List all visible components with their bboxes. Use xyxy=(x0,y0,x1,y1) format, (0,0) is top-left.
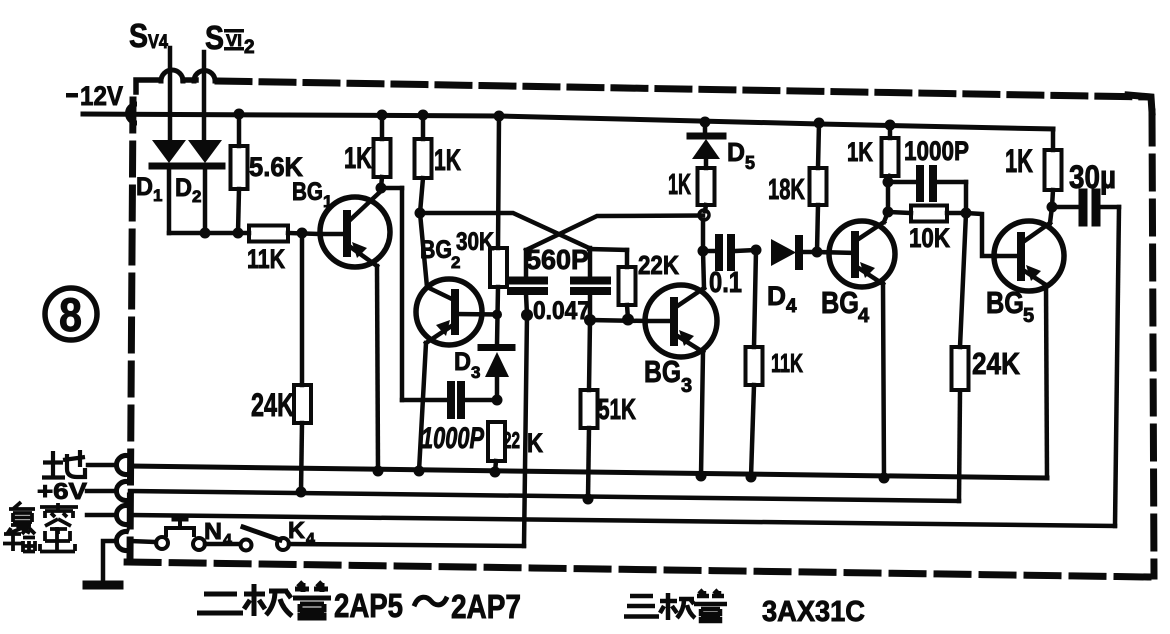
wire BG4 collector riser xyxy=(884,212,888,222)
label sanjiguan (transistor) hanzi xyxy=(624,590,727,621)
svg-text:2: 2 xyxy=(244,37,255,58)
svg-text:D: D xyxy=(136,173,153,201)
wire ground bus right riser to BG5 emitter xyxy=(1046,285,1047,478)
svg-text:D: D xyxy=(175,174,192,202)
wire BG1 base line xyxy=(169,231,249,236)
svg-text:D: D xyxy=(454,348,471,376)
node D3-1000P-22K xyxy=(492,395,503,406)
transistor BG1 xyxy=(320,191,390,267)
svg-text:1K: 1K xyxy=(1005,143,1033,179)
diode D2 xyxy=(188,140,222,233)
dashed enclosure border top xyxy=(218,81,1148,97)
svg-text:0.1: 0.1 xyxy=(709,267,742,299)
node 24K-+6V xyxy=(296,487,307,498)
wire stub di label xyxy=(88,463,114,468)
label fuling (reset) hanzi xyxy=(9,502,78,534)
terminal di (ground) xyxy=(116,456,129,475)
wire 11K to BG1 base xyxy=(288,233,321,234)
connector dome for Sv4 on border xyxy=(161,70,183,81)
svg-text:V4: V4 xyxy=(148,32,168,53)
wire +6V bus xyxy=(130,491,959,501)
wire output riser right from bus3 to 30u cap xyxy=(1115,207,1119,526)
switch K4 blade xyxy=(243,527,280,540)
switch K4 contact a xyxy=(241,540,252,551)
dashed enclosure border bottom xyxy=(126,562,1148,577)
resistor 24K R5 xyxy=(294,385,311,423)
svg-text:560P: 560P xyxy=(526,244,589,275)
switch K4 contact b xyxy=(277,538,289,550)
svg-text:4: 4 xyxy=(223,532,232,549)
wire reset riser up to BG2 base node xyxy=(524,315,527,546)
node 10K-1000P-24K junction xyxy=(961,208,972,219)
resistor 11K R11 xyxy=(746,250,763,477)
terminal +6V xyxy=(116,482,129,501)
svg-text:1: 1 xyxy=(323,192,332,211)
resistor 30K R6 xyxy=(490,116,507,345)
svg-text:N: N xyxy=(204,518,222,544)
terminal fuling (reset) xyxy=(116,506,129,525)
svg-text:D: D xyxy=(767,281,786,311)
node BG2 emitter-ground xyxy=(414,466,425,477)
capacitor 1000P C3 xyxy=(402,385,497,415)
diode D3 xyxy=(481,348,512,401)
label di (ground) hanzi xyxy=(42,450,85,478)
wire 1000P C3 riser down xyxy=(400,188,405,400)
capacitor 0.1 C4 xyxy=(703,238,756,267)
wire rail right corner down to 1K R14 xyxy=(1051,129,1056,150)
switch N4 contact a xyxy=(156,537,168,549)
svg-text:BG: BG xyxy=(292,178,323,206)
svg-text:5: 5 xyxy=(745,153,755,173)
svg-text:K: K xyxy=(527,428,543,458)
node 0.047-BG3 base xyxy=(584,314,596,326)
resistor 1K R4 xyxy=(415,115,432,213)
wire BG3 collector riser xyxy=(703,251,704,288)
resistor 1K R3 xyxy=(374,115,391,188)
node BG2 collector junction xyxy=(415,208,426,219)
label erjiguan (diode) hanzi xyxy=(197,582,331,618)
wire 24K R5 top lead xyxy=(300,233,305,385)
diode D4 xyxy=(771,239,817,266)
diode D5 xyxy=(690,122,723,168)
svg-text:51K: 51K xyxy=(598,394,636,426)
border corner top-right solid xyxy=(1128,95,1152,112)
node BG4 emitter-ground xyxy=(879,473,890,484)
node D2-base xyxy=(200,228,211,239)
wire BG2 collector up to node xyxy=(420,213,427,287)
svg-text:BG: BG xyxy=(644,354,681,389)
svg-text:0.047: 0.047 xyxy=(533,297,590,325)
svg-text:10K: 10K xyxy=(909,223,950,253)
node BG5 collector-30u xyxy=(1047,202,1058,213)
wire +6V bus right riser to 24K R13 xyxy=(959,392,960,501)
chassis ground bar xyxy=(87,581,119,590)
transistor BG3 xyxy=(645,285,717,357)
node 51K-+6V bus xyxy=(583,494,594,505)
node BG3 collector ring xyxy=(699,210,709,220)
node rail-1K R3 xyxy=(377,110,388,121)
svg-text:18K: 18K xyxy=(768,174,805,206)
wire ground bus (di) xyxy=(130,466,1047,478)
svg-text:3: 3 xyxy=(681,375,692,397)
node rail-1K R12 xyxy=(885,120,896,131)
wire 24K to +6V bus xyxy=(301,423,302,492)
label shuchu (output) hanzi xyxy=(3,527,75,552)
svg-text:22K: 22K xyxy=(638,250,679,280)
node BG1 emitter-ground xyxy=(373,466,384,477)
wire BG2 emitter down to ground bus xyxy=(419,343,426,471)
wire BG4 emitter to ground xyxy=(883,284,884,478)
capacitor 0.047 C2 xyxy=(574,281,607,321)
svg-text:3: 3 xyxy=(471,363,480,382)
svg-text:1000P: 1000P xyxy=(904,136,969,166)
resistor 51K R9 xyxy=(581,320,598,499)
resistor 22K R8 xyxy=(619,250,636,319)
svg-text:2: 2 xyxy=(192,187,201,206)
node rail-18K xyxy=(814,118,825,129)
node 5.6K-base xyxy=(233,228,244,239)
resistor 1K R14 xyxy=(1045,150,1062,207)
resistor 11K R2 xyxy=(249,226,288,242)
border solid segment between connector domes xyxy=(183,77,196,83)
svg-text:3AX31C: 3AX31C xyxy=(762,596,865,628)
node 0.1-D4-11K xyxy=(751,245,762,256)
border corner top-left solid xyxy=(136,80,160,92)
svg-text:1K: 1K xyxy=(434,144,461,177)
svg-text:+6V: +6V xyxy=(37,478,88,504)
svg-text:1000P: 1000P xyxy=(421,422,485,455)
svg-text:S: S xyxy=(129,17,148,54)
svg-text:11K: 11K xyxy=(247,244,285,274)
svg-text:5: 5 xyxy=(1023,305,1034,327)
switch N4 contact b xyxy=(193,538,205,550)
wire collector node to 1000P riser xyxy=(381,186,402,191)
node D4-18K-BG4 base xyxy=(812,247,823,258)
wire terminal4 to chassis ground xyxy=(103,541,114,582)
svg-text:24K: 24K xyxy=(251,387,294,423)
wire staircase to BG5 base xyxy=(966,213,996,256)
wire BG3 emitter to ground xyxy=(701,352,703,476)
svg-text:D: D xyxy=(727,137,745,167)
capacitor 560P C1 xyxy=(511,250,544,315)
terminal -12V xyxy=(128,104,138,123)
capacitor 30u C6 xyxy=(1052,193,1119,222)
svg-text:8: 8 xyxy=(59,288,82,341)
wire reset bus K4 to riser xyxy=(289,544,524,546)
node 560P-BG2 base-reset riser xyxy=(521,309,533,321)
wire Sv4 lead down through dome to D1 xyxy=(168,48,173,140)
switch N4 pushbutton actuator xyxy=(166,519,194,535)
wire 1000P right riser xyxy=(964,182,969,213)
svg-text:BG: BG xyxy=(986,285,1024,320)
svg-text:K: K xyxy=(288,517,305,543)
wire cross-coupling A from BG2 collector xyxy=(420,213,589,248)
svg-text:4: 4 xyxy=(858,305,870,327)
resistor 24K R13 xyxy=(952,213,969,390)
connector dome for Sw2 on border xyxy=(194,71,215,82)
wire reset bus terminal to N4 xyxy=(130,541,156,542)
node 22K-ground xyxy=(490,467,501,478)
wire N4 to K4 xyxy=(205,542,240,547)
node 30K-BG2 base xyxy=(492,310,502,320)
wire cross-coupling B from BG3 collector xyxy=(526,216,703,251)
resistor 22K R7 xyxy=(488,422,505,472)
svg-text:BG: BG xyxy=(821,285,859,320)
node rail-D5 xyxy=(700,117,711,128)
transistor BG5 xyxy=(994,221,1064,291)
wire BG3 base line xyxy=(590,320,646,321)
node base-24K xyxy=(297,228,308,239)
svg-text:12V: 12V xyxy=(80,81,123,111)
node 22K-BG3 base xyxy=(622,314,634,326)
resistor 10K (horizontal) xyxy=(888,206,966,222)
svg-text:1: 1 xyxy=(153,186,162,205)
wire BG4 collector to 10K node xyxy=(886,182,891,212)
svg-text:1K: 1K xyxy=(668,169,691,201)
svg-text:1K: 1K xyxy=(344,142,372,175)
svg-text:4: 4 xyxy=(786,296,797,317)
svg-text:2AP7: 2AP7 xyxy=(451,588,521,625)
wire -12V main rail xyxy=(83,114,1053,129)
wire stub +6V label xyxy=(87,489,114,494)
diode D1 xyxy=(152,140,186,233)
transistor BG2 (mirrored) xyxy=(416,279,498,345)
node rail-30K xyxy=(494,111,505,122)
node rail-1K R4 xyxy=(418,110,429,121)
resistor 5.6K R1 xyxy=(231,114,248,233)
node BG3 emitter-ground xyxy=(696,471,707,482)
node 10K left xyxy=(883,207,894,218)
svg-text:30µ: 30µ xyxy=(1069,159,1116,195)
wire A right to 22K R8 xyxy=(589,249,627,250)
resistor 1K R10 xyxy=(698,168,715,211)
wire A down to 0.047 cap xyxy=(588,248,593,278)
svg-text:24K: 24K xyxy=(972,346,1021,381)
wire BG1 emitter to ground bus xyxy=(377,266,378,471)
node rail-5.6K xyxy=(234,109,245,120)
wire reset bus (fuling) xyxy=(130,515,1115,526)
dashed enclosure border right xyxy=(1152,112,1154,576)
resistor 18K xyxy=(810,123,827,252)
terminal shuchu (output) xyxy=(116,532,129,551)
wire Sw2 lead down through dome to D2 xyxy=(202,52,207,140)
transistor BG4 xyxy=(817,221,895,287)
svg-text:BG: BG xyxy=(420,236,452,264)
svg-text:22: 22 xyxy=(503,427,520,453)
svg-text:2AP5: 2AP5 xyxy=(334,587,403,624)
wire BG5 collector riser xyxy=(1050,207,1052,223)
node 11K-ground xyxy=(746,472,757,483)
dashed enclosure border left xyxy=(130,100,133,558)
symbol circled 8 xyxy=(45,288,97,341)
node 1K-1000P xyxy=(883,177,894,188)
capacitor 1000P C5 xyxy=(888,169,966,198)
wire collector to node ring xyxy=(701,220,706,251)
svg-text:S: S xyxy=(205,19,224,56)
node 0.1 tap on collector xyxy=(698,246,709,257)
resistor 1K R12 xyxy=(882,125,899,182)
svg-text:11K: 11K xyxy=(771,348,803,378)
svg-text:1K: 1K xyxy=(847,137,873,167)
label -12V xyxy=(66,93,78,98)
node BG1 collector junction xyxy=(376,183,387,194)
wire stub fuling label xyxy=(87,513,114,518)
